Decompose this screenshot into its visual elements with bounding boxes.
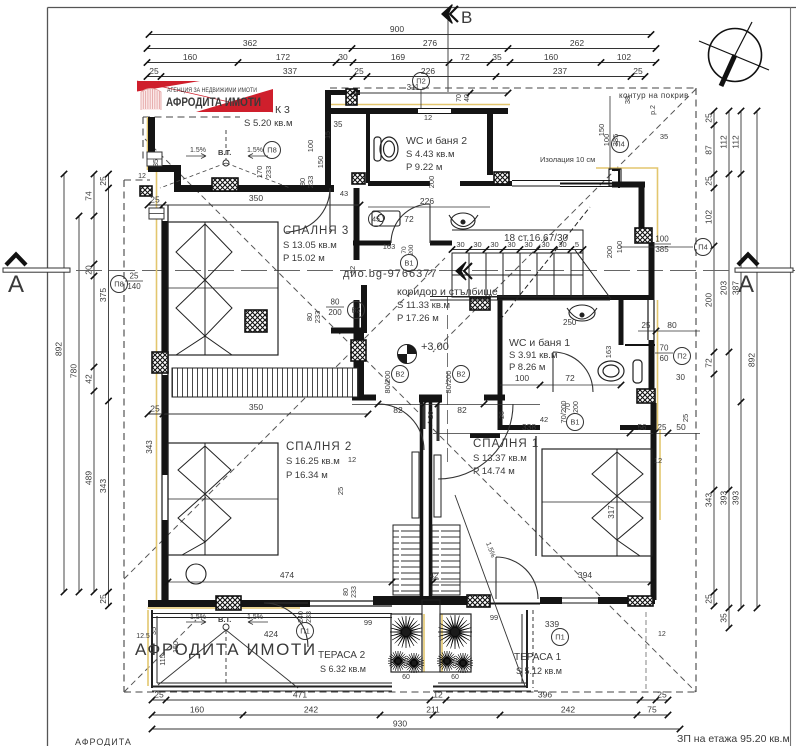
svg-text:P 17.26 м: P 17.26 м [397,313,439,324]
wardrobes center party wall [393,525,420,595]
svg-text:25: 25 [130,272,139,281]
svg-text:Изолация 10 см: Изолация 10 см [540,155,595,164]
svg-text:1.5%: 1.5% [190,147,206,154]
svg-text:26: 26 [499,411,506,419]
svg-text:337: 337 [283,66,297,76]
svg-text:900: 900 [390,24,404,34]
svg-text:339: 339 [545,619,559,629]
axis circle P8 left [111,276,128,293]
svg-text:S 13.37 кв.м: S 13.37 кв.м [473,453,527,464]
svg-text:25: 25 [150,195,160,205]
svg-text:30: 30 [558,240,566,249]
svg-text:160: 160 [190,705,204,715]
svg-text:12.5: 12.5 [136,633,150,640]
svg-text:В2: В2 [456,370,465,379]
svg-text:S 3.91 кв.м: S 3.91 кв.м [509,350,557,361]
svg-text:99: 99 [490,613,498,622]
svg-text:72: 72 [460,52,470,62]
svg-text:СПАЛНЯ 2: СПАЛНЯ 2 [286,441,352,453]
svg-text:S 5.12 кв.м: S 5.12 кв.м [516,666,562,676]
svg-text:56: 56 [638,423,647,432]
svg-text:25: 25 [336,487,345,495]
bed bedroom3 [168,222,278,355]
svg-text:25: 25 [633,66,643,76]
svg-text:А: А [8,271,24,298]
terrace 2 drain lines [158,630,298,688]
top dimension row 900 [149,34,651,36]
svg-text:160: 160 [544,52,558,62]
svg-text:СПАЛНЯ 1: СПАЛНЯ 1 [473,438,539,450]
right dim column 112 387 393 [740,111,742,608]
svg-text:20: 20 [84,265,94,275]
svg-text:35: 35 [719,613,729,623]
axis circle P8 K3 [264,142,281,159]
bed bedroom1 [542,449,652,556]
svg-text:112: 112 [719,135,729,149]
level mark +3.00 [398,345,417,364]
svg-text:12: 12 [138,173,146,180]
svg-text:169: 169 [391,52,405,62]
agency logo [137,81,273,112]
svg-text:1.5%: 1.5% [247,614,263,621]
svg-text:26: 26 [428,411,435,419]
svg-text:25: 25 [98,594,108,604]
svg-text:S 5.20 кв.м: S 5.20 кв.м [244,118,292,129]
svg-text:А: А [738,271,754,298]
svg-text:25: 25 [681,414,690,422]
svg-text:30: 30 [338,52,348,62]
WC2 bath small [372,211,400,226]
wardrobe bedroom3 (comb hatch) [172,368,358,397]
compass north symbol [709,29,762,82]
svg-text:80: 80 [667,320,677,330]
svg-text:АФРОДИТА ИМОТИ: АФРОДИТА ИМОТИ [135,640,317,659]
svg-text:362: 362 [243,38,257,48]
svg-text:930: 930 [393,719,407,729]
WC2 sink [449,213,478,229]
svg-text:42: 42 [540,415,548,424]
svg-text:233: 233 [264,166,273,179]
svg-text:140: 140 [127,282,141,291]
svg-text:S 11.33 кв.м: S 11.33 кв.м [397,300,450,311]
svg-text:250: 250 [563,318,577,327]
svg-text:П2: П2 [677,352,687,361]
svg-text:5: 5 [575,240,579,249]
roof hip diagonals dashed [124,89,696,692]
svg-text:474: 474 [280,570,294,580]
svg-text:780: 780 [69,364,79,378]
K3 drain [223,160,229,166]
top dimension row 362 276 262 [147,48,656,50]
top dimension row 25 337 25 226 237 25 [147,76,645,78]
svg-text:P 9.22 м: P 9.22 м [406,162,442,173]
svg-text:311: 311 [407,83,420,92]
svg-text:30: 30 [456,240,464,249]
svg-text:25: 25 [354,66,364,76]
svg-text:150: 150 [597,124,606,137]
svg-text:СПАЛНЯ 3: СПАЛНЯ 3 [283,225,349,237]
svg-text:S 6.32 кв.м: S 6.32 кв.м [320,664,366,674]
svg-text:100: 100 [306,140,315,153]
svg-text:338: 338 [522,422,536,432]
svg-text:262: 262 [570,38,584,48]
svg-text:163: 163 [604,346,613,359]
svg-text:25: 25 [704,113,714,123]
terrace 2 drain point [223,624,229,630]
svg-text:100: 100 [515,373,529,383]
svg-text:226: 226 [420,196,434,206]
svg-text:200: 200 [704,293,714,307]
svg-text:В2: В2 [395,370,404,379]
staircase [430,207,611,320]
svg-text:99: 99 [364,618,372,627]
svg-text:38: 38 [623,96,632,104]
axis circle P2 right [674,348,691,365]
WC1 toilet [598,360,642,383]
svg-text:1.5%: 1.5% [247,147,263,154]
svg-text:АФРОДИТА ИМОТИ: АФРОДИТА ИМОТИ [166,95,261,109]
svg-text:25: 25 [149,66,159,76]
svg-text:25: 25 [704,594,714,604]
svg-text:12: 12 [654,456,662,465]
bottom dimension row 160 242 211 242 75 [152,714,668,716]
svg-text:233: 233 [306,611,313,623]
svg-text:S 4.43 кв.м: S 4.43 кв.м [406,149,454,160]
axis circle P4 right mid [695,239,712,256]
svg-text:42: 42 [84,374,94,384]
svg-text:45: 45 [372,217,380,224]
svg-text:200: 200 [328,308,342,317]
svg-text:317: 317 [607,505,616,519]
svg-text:80/200: 80/200 [444,371,453,394]
svg-text:200: 200 [605,246,614,259]
section marker A right [735,268,793,272]
svg-text:П8: П8 [267,146,277,155]
svg-text:343: 343 [145,440,154,454]
svg-text:70: 70 [660,344,669,353]
svg-text:60: 60 [451,674,459,681]
svg-text:25: 25 [150,404,160,414]
svg-text:В1: В1 [404,259,413,268]
svg-text:25: 25 [704,176,714,186]
svg-text:343: 343 [98,479,108,493]
bed bedroom2 [168,443,278,555]
doors [264,188,593,647]
terrace 1 drain diagonal [455,495,525,686]
svg-text:П1: П1 [300,627,310,636]
svg-text:203: 203 [719,281,729,295]
svg-text:242: 242 [304,705,318,715]
svg-text:102: 102 [704,210,714,224]
svg-text:30: 30 [676,373,685,382]
right dim column 112 203 393 35 [728,111,730,608]
svg-text:233: 233 [306,176,315,189]
svg-text:25: 25 [98,176,108,186]
svg-text:1.5%: 1.5% [484,541,496,558]
svg-text:72: 72 [565,373,575,383]
svg-text:П8: П8 [114,280,124,289]
WC1 sink [567,305,597,321]
svg-text:S 16.25 кв.м: S 16.25 кв.м [286,456,340,467]
svg-text:P 8.26 м: P 8.26 м [509,362,545,373]
svg-text:82: 82 [393,405,403,415]
svg-text:160: 160 [183,52,197,62]
svg-text:30: 30 [524,240,532,249]
svg-text:350: 350 [249,193,263,203]
svg-text:WC и баня 2: WC и баня 2 [406,135,467,147]
svg-text:43: 43 [340,189,348,198]
svg-text:В.Т.: В.Т. [218,615,231,624]
svg-text:15: 15 [325,131,332,139]
svg-text:П4: П4 [698,243,708,252]
svg-text:В.Т.: В.Т. [218,148,231,157]
section marker A left [6,255,26,266]
building walls thick [147,90,655,606]
svg-text:42: 42 [430,571,438,580]
svg-text:В: В [461,8,472,27]
left dim column 892 [63,174,65,592]
svg-text:P 14.74 м: P 14.74 м [473,466,515,477]
svg-text:12: 12 [424,113,432,122]
svg-text:ЗП на етажа 95.20 кв.м: ЗП на етажа 95.20 кв.м [677,733,790,745]
svg-text:892: 892 [747,353,757,367]
svg-text:100: 100 [655,235,669,244]
left dim column 74 .. 489 [93,174,95,592]
svg-text:385: 385 [655,245,669,254]
hatched wall blocks [212,178,238,191]
svg-text:211: 211 [426,705,440,715]
svg-text:82: 82 [457,405,467,415]
svg-text:70: 70 [565,403,572,411]
svg-text:ТЕРАСА 1: ТЕРАСА 1 [514,652,562,663]
svg-text:25: 25 [642,321,651,330]
svg-text:394: 394 [578,570,592,580]
svg-text:72: 72 [704,358,714,368]
axis circle P1 terraces [297,623,314,640]
svg-text:60: 60 [660,354,669,363]
svg-text:35: 35 [334,120,343,129]
svg-text:30: 30 [541,240,549,249]
roof contour dashed outline [124,88,696,692]
svg-text:350: 350 [249,402,263,412]
svg-text:150: 150 [316,156,325,169]
svg-text:К 3: К 3 [275,104,290,116]
planter boxes with bushes [391,614,422,672]
svg-text:1.5%: 1.5% [190,614,206,621]
svg-text:233: 233 [313,311,322,324]
svg-text:S 13.05 кв.м: S 13.05 кв.м [283,240,337,251]
svg-text:385: 385 [611,134,620,147]
svg-text:P 15.02 м: P 15.02 м [283,253,325,264]
svg-text:В2: В2 [351,306,360,315]
svg-text:50: 50 [676,422,686,432]
svg-text:35: 35 [492,52,502,62]
svg-text:П1: П1 [555,633,565,642]
svg-text:35: 35 [153,159,160,167]
svg-text:892: 892 [54,342,64,356]
svg-text:80: 80 [331,298,340,307]
svg-text:25: 25 [657,690,667,700]
svg-text:343: 343 [704,493,714,507]
svg-text:70: 70 [401,246,408,254]
svg-text:396: 396 [538,690,552,700]
svg-text:АГЕНЦИЯ ЗА НЕДВИЖИМИ ИМОТИ: АГЕНЦИЯ ЗА НЕДВИЖИМИ ИМОТИ [167,88,257,94]
section marker B mid chevron [456,262,466,280]
WC2 toilet [374,137,398,161]
section line A-A [10,270,795,272]
page frame [48,7,797,9]
svg-text:АФРОДИТА: АФРОДИТА [75,737,132,746]
svg-text:163: 163 [383,242,396,251]
right dim column 892 [756,111,758,608]
section marker B top [447,16,449,92]
terrace 1 outline [433,610,540,691]
left dim column 25 375 343 25 [108,174,110,606]
logo building icon [141,89,161,111]
svg-text:240: 240 [298,611,305,623]
svg-text:12: 12 [658,631,666,638]
svg-text:170: 170 [255,166,264,179]
svg-text:393: 393 [731,491,741,505]
svg-text:87: 87 [704,145,714,155]
svg-text:30: 30 [473,240,481,249]
svg-text:200: 200 [573,401,580,413]
svg-text:P 16.34 м: P 16.34 м [286,470,328,481]
left dim column 780 [78,216,80,592]
svg-text:233: 233 [351,586,358,598]
svg-text:35: 35 [660,132,668,141]
svg-text:237: 237 [553,66,567,76]
svg-text:+3.00: +3.00 [421,341,449,353]
svg-text:30: 30 [507,240,515,249]
svg-text:В1: В1 [570,418,579,427]
svg-text:коридор и стълбище: коридор и стълбище [397,286,498,298]
svg-text:35: 35 [149,627,158,635]
svg-text:200: 200 [427,176,436,189]
bottom dimension row 25 471 12 396 25 [152,699,668,701]
section axis B dashed [447,296,449,462]
terrace 2 outline [152,610,392,691]
svg-text:112: 112 [731,135,741,149]
svg-text:12: 12 [348,455,356,464]
svg-text:60: 60 [402,674,410,681]
svg-text:ТЕРАСА 2: ТЕРАСА 2 [318,650,366,661]
svg-text:200: 200 [408,244,415,255]
svg-text:25: 25 [658,423,667,432]
axis circle B1 B2 [401,255,418,272]
insulation lines yellow [148,105,661,687]
axis circle P4 right top [612,136,629,153]
svg-text:226: 226 [421,66,435,76]
svg-text:102: 102 [617,52,631,62]
svg-text:276: 276 [423,38,437,48]
svg-text:242: 242 [561,705,575,715]
bottom dimension row 930 [152,728,680,730]
svg-text:74: 74 [84,191,94,201]
svg-text:80: 80 [343,588,350,596]
svg-text:р.2: р.2 [650,105,657,115]
svg-text:424: 424 [264,629,278,639]
svg-text:дио.bg-9766377: дио.bg-9766377 [343,268,437,280]
axis circle P2 top [413,73,430,90]
top dimension row 160 172 30 169 72 35 160 102 [147,62,656,64]
svg-text:393: 393 [719,491,729,505]
svg-text:172: 172 [276,52,290,62]
right dim column 25 87 25 102 200 72 343 25 [713,111,715,606]
svg-text:75: 75 [647,705,657,715]
svg-text:80/200: 80/200 [383,371,392,394]
svg-text:375: 375 [98,288,108,302]
svg-text:70: 70 [456,94,463,102]
svg-text:30: 30 [490,240,498,249]
svg-text:40: 40 [464,94,471,102]
svg-text:72: 72 [404,214,414,224]
svg-text:WC и баня 1: WC и баня 1 [509,337,570,349]
svg-text:489: 489 [84,471,94,485]
